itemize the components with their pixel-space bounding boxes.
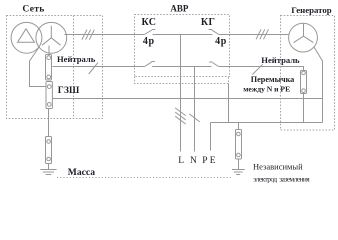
dotted mass equipotential line <box>57 177 232 179</box>
wire: АВР enclosure PE vertical <box>228 84 230 123</box>
svg-text:ГЗШ: ГЗШ <box>58 86 80 96</box>
svg-text:Перемычка: Перемычка <box>251 75 294 84</box>
svg-text:КС: КС <box>142 17 157 28</box>
generator wye symbol <box>294 24 314 43</box>
wire: neutral junction diagonal to ГЗШ <box>30 48 47 87</box>
wire: generator phase line <box>219 34 289 36</box>
leader line for Нейтраль (left) <box>89 63 98 74</box>
generator G circle <box>289 23 318 52</box>
svg-text:Сеть: Сеть <box>22 4 44 15</box>
svg-text:КГ: КГ <box>201 17 215 28</box>
svg-text:4р: 4р <box>143 36 155 47</box>
wye symbol <box>42 26 61 45</box>
wire: rod to ground symbol <box>48 164 50 170</box>
svg-text:PE: PE <box>202 156 218 166</box>
wire: neutral bus <box>152 66 211 68</box>
wire: grid neutral line <box>52 66 144 68</box>
svg-text:N: N <box>190 156 197 166</box>
wire: phase bus КС to КГ <box>153 34 213 36</box>
wire: rod to ground symbol <box>238 159 240 170</box>
grid phase conductor ticks /// <box>82 30 94 40</box>
svg-text:L: L <box>178 156 184 166</box>
ground symbol (independent electrode) <box>232 170 245 175</box>
wire: generator frame earth <box>314 47 323 123</box>
leader line for Перемычка <box>252 64 262 74</box>
transformer T1 delta winding circle <box>11 22 42 53</box>
enclosure: АВР dashed box <box>135 15 230 77</box>
svg-text:4р: 4р <box>215 36 227 47</box>
left box internal dashed divider <box>73 16 75 119</box>
wire: neutral to generator jumper <box>219 67 304 71</box>
contactor КС neutral pole <box>145 62 155 67</box>
svg-text:Нейтраль: Нейтраль <box>261 55 300 65</box>
wire: L drop <box>180 35 182 152</box>
wire: jumper down to PE line <box>303 94 305 123</box>
contactor КГ neutral pole <box>209 62 219 67</box>
busbar: ГЗШ bar <box>46 82 52 109</box>
jumper bar N-PE <box>301 71 307 94</box>
wire: PE drop <box>210 123 212 151</box>
wire: ГЗШ to earth electrode <box>48 109 50 137</box>
generator phase conductor ticks /// <box>256 29 268 39</box>
svg-text:Нейтраль: Нейтраль <box>57 54 96 64</box>
wire: N drop <box>194 67 196 152</box>
L conductor ticks <box>175 108 186 124</box>
enclosure: Генератор dashed box <box>281 16 335 131</box>
wire: independent electrode drop <box>238 123 240 130</box>
svg-text:Масса: Масса <box>68 167 95 178</box>
contactor КС phase pole <box>144 30 155 35</box>
wire: PE bottom line <box>211 122 323 124</box>
svg-text:АВР: АВР <box>170 4 189 14</box>
N conductor tick <box>189 114 200 122</box>
svg-text:Генератор: Генератор <box>291 5 331 15</box>
svg-text:электрод заземления: электрод заземления <box>253 175 310 184</box>
ground symbol Масса <box>40 170 56 175</box>
wire: grid phase line <box>64 34 144 36</box>
transformer T1 wye winding circle <box>36 22 67 53</box>
АВР box lower extension line <box>135 77 229 84</box>
contactor КГ phase pole <box>209 30 219 35</box>
busbar: Нейтраль bar <box>46 55 52 81</box>
electrode: independent earth rod <box>236 130 242 160</box>
svg-text:Независимый: Независимый <box>253 162 303 172</box>
electrode: Масса earth rod <box>46 137 52 164</box>
svg-text:между N и PE: между N и PE <box>243 85 290 94</box>
wire: transformer neutral tap stub <box>48 46 50 57</box>
enclosure: Сеть dashed box <box>7 16 103 119</box>
delta symbol <box>18 29 35 43</box>
wire: ГЗШ PE line <box>52 98 322 100</box>
